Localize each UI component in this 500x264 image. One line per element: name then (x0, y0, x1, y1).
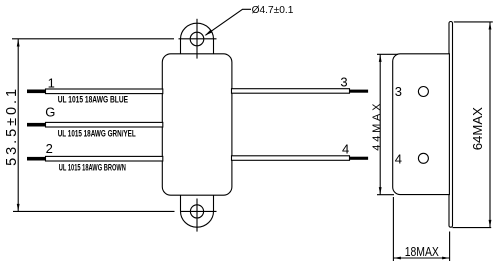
top tab hole (190, 32, 204, 46)
dim 53.5 extension line bottom (13, 210, 175, 212)
dim 64MAX extension top (454, 21, 493, 23)
dim 64MAX line (489, 22, 491, 227)
svg-text:3: 3 (395, 84, 402, 99)
dim 53.5 extension line top (12, 38, 174, 40)
wire 4 bare end (350, 157, 369, 160)
dim 44MAX extension bottom (377, 194, 394, 196)
wire 1 bare end (27, 90, 46, 94)
wire 3 insulation (232, 89, 350, 94)
svg-text:2: 2 (46, 141, 53, 156)
wire 2 bare end (27, 157, 46, 161)
svg-text:64MAX: 64MAX (470, 107, 485, 151)
body (side) (393, 54, 450, 195)
svg-text:UL 1015 18AWG GRN/YEL: UL 1015 18AWG GRN/YEL (58, 129, 136, 139)
dim 18MAX line (393, 257, 449, 259)
dim 44MAX line (379, 54, 381, 194)
svg-text:1: 1 (48, 76, 55, 91)
top mounting tab (181, 23, 214, 54)
bottom hole centerlines (180, 210, 217, 212)
wire G insulation (46, 122, 163, 127)
mounting flange (edge) (449, 22, 453, 228)
leader line for hole dia (206, 9, 252, 35)
wire G bare end (27, 123, 46, 127)
wire 1 insulation (46, 89, 163, 94)
dim 64MAX extension bottom (453, 227, 492, 229)
dim 44MAX extension top (377, 53, 398, 55)
svg-text:Ø4.7±0.1: Ø4.7±0.1 (252, 5, 294, 16)
wire 3 bare end (350, 90, 369, 93)
svg-text:18MAX: 18MAX (405, 244, 439, 259)
filter body (front) (162, 54, 232, 195)
wire 4 insulation (232, 156, 350, 161)
svg-text:UL 1015 18AWG BROWN: UL 1015 18AWG BROWN (59, 162, 126, 172)
dim 18MAX extension right (449, 232, 451, 262)
svg-text:UL 1015 18AWG BLUE: UL 1015 18AWG BLUE (58, 94, 128, 104)
dim 18MAX extension left (392, 197, 394, 261)
svg-text:4: 4 (342, 141, 349, 156)
svg-text:3: 3 (340, 74, 347, 89)
side hole 3 (418, 87, 428, 97)
wire 2 insulation (46, 156, 163, 161)
dim 53.5 line (17, 39, 19, 211)
bottom tab hole (190, 205, 203, 218)
svg-text:G: G (45, 105, 55, 120)
top hole centerlines (179, 38, 217, 40)
svg-text:4: 4 (395, 151, 402, 166)
side hole 4 (418, 153, 428, 163)
bottom mounting tab (181, 194, 214, 227)
